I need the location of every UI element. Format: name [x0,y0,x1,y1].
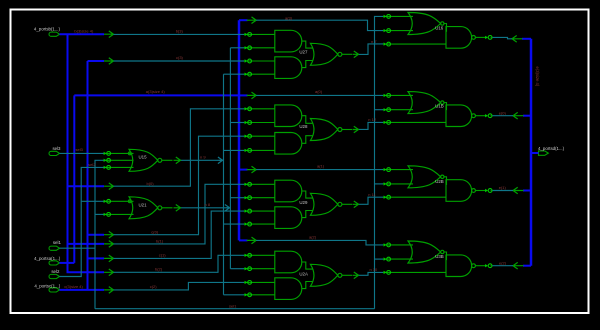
ripper arrow b(3) [104,31,114,38]
bus stub e(1) [523,190,531,192]
port 4_portsa(1...) [49,261,60,265]
U1B output wire [475,115,486,117]
wire a(0) [256,94,385,96]
svg-text:U29: U29 [299,200,308,205]
U27 pins [244,33,275,35]
wire sel1 branch to U21 [95,213,104,215]
U28 and1 to nor wire [302,116,313,124]
U3B or to and wire [444,252,447,260]
U29 and1 to nor wire [302,191,313,198]
svg-text:n 12: n 12 [368,117,377,122]
U15 input pin circle [128,152,131,155]
junction arrow n9 [218,157,223,164]
wire n9 to block2 [224,149,247,151]
U28 output wire [342,129,352,131]
U27 output wire [342,53,352,55]
U2B and input n pin [383,196,446,198]
svg-text:U3B: U3B [435,254,444,259]
wire a(3) [256,20,385,30]
svg-text:4_portsb(1...): 4_portsb(1...) [34,27,61,32]
bus riser b [67,34,69,272]
U2B output wire [475,190,486,192]
wire sel1 bottom run [95,308,375,310]
wire sel2 from port [60,167,105,276]
wire n8 from U21 [181,207,230,209]
U3B and output pin circle [472,264,476,268]
wire e(1) net [492,190,513,192]
U16 or pins [383,15,413,17]
U16 and output pin circle [472,36,476,40]
and gate U27 lower [275,57,302,79]
bus stub b(1) [68,243,105,245]
svg-text:sel1: sel1 [53,240,62,245]
U2A and1 to nor wire [302,262,313,269]
ripper arrow c(3) [104,58,114,65]
wire c(2) [114,282,247,290]
svg-text:a(2): a(2) [309,234,317,239]
nor gate U2A [310,264,337,286]
U2A output wire [342,274,352,276]
U16 and input n pin [383,43,446,45]
svg-text:sel3: sel3 [52,146,61,151]
bus stub b(0) [68,185,105,187]
wire b(0) [114,109,247,186]
wire n9 to block3 [224,223,247,225]
port 4_portsc(1...) [49,288,60,292]
U29 and2 to nor wire [302,211,313,218]
wire sel1 branch unit4 [375,258,386,260]
and gate U27 upper [275,30,302,52]
bus stub b(2) [68,271,105,272]
nor gate U1B [408,92,441,114]
svg-text:b(2): b(2) [155,267,163,272]
wire b(3) [114,33,247,35]
bus stub c(3) [88,60,105,62]
svg-text:b(1): b(1) [156,239,164,244]
bus stub to port d [531,152,539,154]
U15 output arrow [174,157,181,164]
svg-text:b(3)size 4): b(3)size 4) [74,28,94,33]
wire n8 to block4 [230,268,246,270]
U27 and2 to nor wire [302,61,313,68]
wire n11 [359,197,386,204]
bus stub a(3) [239,19,248,21]
U3B and input n pin [383,271,446,273]
svg-text:sel3: sel3 [76,147,84,152]
and gate U29 lower [275,207,302,229]
and gate U1BA [446,105,472,127]
bus a horizontal [74,94,239,96]
svg-text:b(3): b(3) [176,29,184,34]
U29 output arrow [353,201,359,208]
wire n8 to block3 [230,197,246,199]
bus c from port [60,289,105,291]
U21 input pin circle [128,200,131,203]
nor gate U2B [408,166,441,188]
U29 output wire [342,203,352,205]
svg-text:4_portsa(1...): 4_portsa(1...) [34,256,61,261]
U15 pins [104,152,134,154]
nor U15 [129,149,158,171]
U28 and2 to nor wire [302,136,313,144]
svg-text:4_portsc(1...): 4_portsc(1...) [34,283,60,288]
wire n8 riser [229,48,231,269]
svg-text:U2A: U2A [299,271,308,276]
and gate U2A upper [275,251,302,273]
svg-text:n 7: n 7 [371,39,377,44]
U3B or pins [383,244,413,246]
U28 pins [244,108,275,110]
svg-text:e(0): e(0) [499,110,507,115]
svg-text:U16: U16 [435,25,444,30]
and gate U16A [446,27,472,49]
svg-text:a(0): a(0) [315,89,323,94]
svg-text:n 10: n 10 [370,267,379,272]
wire sel3 [60,152,105,154]
svg-text:e(2): e(2) [499,260,507,265]
wire n12 [359,122,386,129]
and gate U3BA [446,255,472,277]
wire a(1) [256,169,385,171]
ripper arrow e(3) [512,36,523,43]
U15 output wire [162,159,173,161]
U16 output wire [475,36,486,38]
port sel1 [49,246,60,250]
U1B and input n pin [383,121,446,123]
svg-text:4_portsd(1...): 4_portsd(1...) [538,146,565,151]
bus stub a(2) [239,239,248,241]
svg-text:sel2: sel2 [51,269,60,274]
bus riser c [87,61,89,290]
U1B or pins [383,94,413,96]
bus stub e(2) [523,265,531,267]
ripper arrow b(2) [104,269,114,276]
wire n8 to block2 [230,122,246,124]
svg-text:c(0): c(0) [151,229,159,234]
bus stub c(1) [88,257,105,259]
wire e(2) net [492,265,513,267]
wire c(0) [114,136,247,235]
U1B and output pin circle [472,114,476,118]
svg-text:c(2): c(2) [150,284,158,289]
bus riser a [73,95,75,263]
wire n9 to block1 [224,73,247,75]
svg-text:e(1): e(1) [499,185,507,190]
svg-text:c(3): c(3) [176,55,184,60]
and gate U29 upper [275,180,302,202]
svg-text:n 8: n 8 [205,202,211,207]
svg-text:sel2: sel2 [88,162,96,167]
bus b from port [60,33,105,35]
U2A and2 to nor wire [302,282,313,289]
ripper arrow e(1) [513,187,524,194]
wire b(2) [114,255,247,272]
svg-text:U27: U27 [299,50,308,55]
wire e(3) net [492,37,512,38]
bus a from port [60,262,75,264]
U28 output arrow [353,126,359,133]
svg-text:e(3)size 4): e(3)size 4) [535,67,540,87]
U2A output arrow [353,272,359,279]
ripper arrow a(0) [247,92,257,99]
U2B and output pin circle [472,189,476,193]
svg-text:U2B: U2B [435,179,444,184]
wire n9 riser [223,74,225,295]
U27 and1 to nor wire [302,41,313,48]
svg-text:n 11: n 11 [368,192,376,197]
U21 pins [104,200,134,202]
bus a vertical center [238,20,241,240]
U21 output arrow [174,205,181,212]
wire sel1 branch unit3 [375,183,386,185]
bus stub e(3) [522,38,531,40]
wire a(2) [256,240,385,245]
wire n8 to block1 [230,47,246,49]
port 4_portsd(1...) [539,151,549,155]
ripper arrow a(1) [247,166,257,173]
U2B or to and wire [444,177,447,185]
svg-text:U28: U28 [299,124,308,129]
bus e vertical right [530,39,533,266]
wire sel1 riser left [95,160,104,308]
svg-text:a(3)size 4): a(3)size 4) [146,89,166,94]
nor gate U29 [310,193,337,215]
svg-text:n 9: n 9 [200,155,206,160]
U1B or to and wire [444,103,447,111]
wire e(0) net [492,115,513,117]
svg-text:U21: U21 [139,203,148,208]
svg-text:a(3): a(3) [285,15,293,20]
U29 pins [244,183,275,185]
U27 output arrow [353,51,359,58]
and gate U28 lower [275,133,302,155]
bus stub a(1) [239,169,248,171]
ripper arrow a(2) [247,237,257,244]
bus stub e(0) [523,115,531,117]
svg-text:sel1: sel1 [229,303,237,308]
bus stub a(0) [239,94,248,96]
wire n9 from U15 [181,159,223,161]
wire n7 [359,44,386,55]
nor gate U28 [310,119,337,141]
wire sel1 riser right [375,16,386,308]
port sel3 [49,151,60,155]
and gate U28 upper [275,105,302,127]
nor gate U27 [310,43,337,65]
nor U21 [129,197,158,219]
port sel2 [49,274,60,278]
ripper arrow e(2) [513,262,524,269]
ripper arrow c(2) [104,287,114,294]
ripper arrow a(3) [247,17,257,24]
wire sel2 branch to U21 [81,200,104,202]
nor gate U16 [408,13,441,35]
wire n10 [359,272,386,275]
bus stub c(0) [88,234,105,236]
U21 output wire [162,207,173,209]
U2B or pins [383,169,413,171]
svg-text:b(0): b(0) [147,181,155,186]
wire c(1) [114,211,247,258]
svg-text:c(3)size 4): c(3)size 4) [64,284,83,289]
nor gate U3B [408,241,441,263]
wire sel1 from port [60,247,96,249]
svg-text:a(1): a(1) [317,163,325,168]
U16 or to and wire [444,24,447,32]
and gate U2A lower [275,278,302,300]
wire n9 to block4 [224,294,247,296]
svg-text:U15: U15 [139,155,148,160]
U2A pins [244,254,275,256]
ripper arrow c(0) [104,231,114,238]
junction arrow n8 [225,205,230,212]
ripper arrow e(0) [513,112,524,119]
ripper arrow b(0) [104,183,114,190]
and gate U2BA [446,180,472,202]
svg-text:c(1): c(1) [159,253,167,258]
wire sel1 branch unit2 [375,109,386,111]
U3B output wire [475,265,486,267]
ripper arrow c(1) [104,255,114,262]
ripper arrow b(1) [104,241,114,248]
svg-text:U1B: U1B [435,104,444,109]
port 4_portsb(1...) [49,32,60,36]
wire c(3) [114,60,247,62]
wire b(1) [114,184,247,244]
